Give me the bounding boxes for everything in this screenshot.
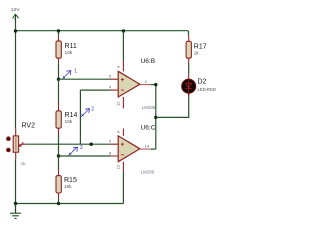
svg-text:D2: D2 (198, 79, 207, 86)
op-amp U6:C (109, 125, 156, 204)
wire wiper to pin9 (26, 143, 110, 145)
svg-text:2: 2 (91, 107, 94, 113)
node dot pin8 (57, 154, 60, 157)
node dot out U6B (154, 83, 157, 86)
resistor R11 (56, 35, 77, 63)
wire R11 node down to R14 (58, 79, 60, 102)
probe 1 (62, 71, 71, 79)
wire left rail lower (15, 159, 17, 213)
node dot bottom left (14, 202, 17, 205)
node dot U6B vcc (122, 29, 125, 32)
wire out to LED column (156, 94, 189, 118)
node dot R15 bottom (57, 202, 60, 205)
svg-text:RV2: RV2 (22, 122, 36, 129)
wire left rail upper (15, 21, 17, 129)
probe 3 (69, 147, 78, 155)
power symbol arrow (13, 14, 19, 21)
node dot out mid (154, 116, 157, 119)
wire top rail (16, 30, 189, 32)
RV2 terminal dot lower (6, 148, 10, 152)
svg-text:LED-RED: LED-RED (198, 87, 216, 92)
LED D2 (182, 74, 216, 96)
wire R15 bottom (58, 198, 60, 203)
wire pin4 horizontal (80, 89, 110, 91)
svg-text:1: 1 (74, 69, 77, 75)
probe 2 (81, 109, 90, 117)
svg-text:12: 12 (116, 164, 121, 169)
wire pin4 vertical (79, 90, 81, 144)
wire R11 top (58, 31, 60, 35)
svg-text:3: 3 (80, 145, 83, 151)
svg-text:R15: R15 (64, 177, 77, 184)
svg-text:U6:B: U6:B (141, 58, 156, 65)
svg-text:1k: 1k (194, 50, 200, 55)
wire R17 to LED (188, 64, 190, 74)
svg-text:10k: 10k (65, 119, 73, 124)
svg-text:12: 12 (116, 101, 121, 106)
wire node to pin5 (59, 78, 111, 80)
svg-text:10k: 10k (65, 50, 73, 55)
wire top rail corner to R17 (188, 31, 190, 35)
node dot wiper line (90, 143, 93, 146)
svg-text:R14: R14 (65, 112, 78, 119)
potentiometer RV2 (13, 122, 35, 166)
svg-text:LM339: LM339 (141, 170, 155, 175)
svg-text:LM339: LM339 (142, 105, 156, 110)
op-amp U6:B (109, 31, 156, 110)
wire bottom rail (16, 203, 124, 205)
svg-text:12V: 12V (11, 7, 20, 13)
RV2 terminal dot upper (6, 137, 10, 141)
resistor R14 (56, 103, 77, 134)
wire node to pin8 (59, 155, 111, 157)
wire outputs join vertical (155, 85, 157, 150)
svg-text:14: 14 (145, 144, 150, 149)
node dot R11 top (57, 29, 60, 32)
wire R14 bottom to node (58, 134, 60, 157)
resistor R15 (56, 170, 77, 199)
svg-text:R11: R11 (65, 43, 77, 50)
node dot rail/12V (14, 29, 17, 32)
ground (10, 204, 21, 219)
svg-text:U6:C: U6:C (141, 125, 156, 132)
node dot pin5 (57, 78, 60, 81)
svg-text:1k: 1k (21, 161, 26, 166)
svg-text:10k: 10k (64, 184, 72, 189)
RV2 wiper arrow (20, 142, 24, 146)
wire R11 bottom to node (58, 63, 60, 79)
wire R15 top (58, 156, 60, 170)
resistor R17 (186, 35, 207, 63)
